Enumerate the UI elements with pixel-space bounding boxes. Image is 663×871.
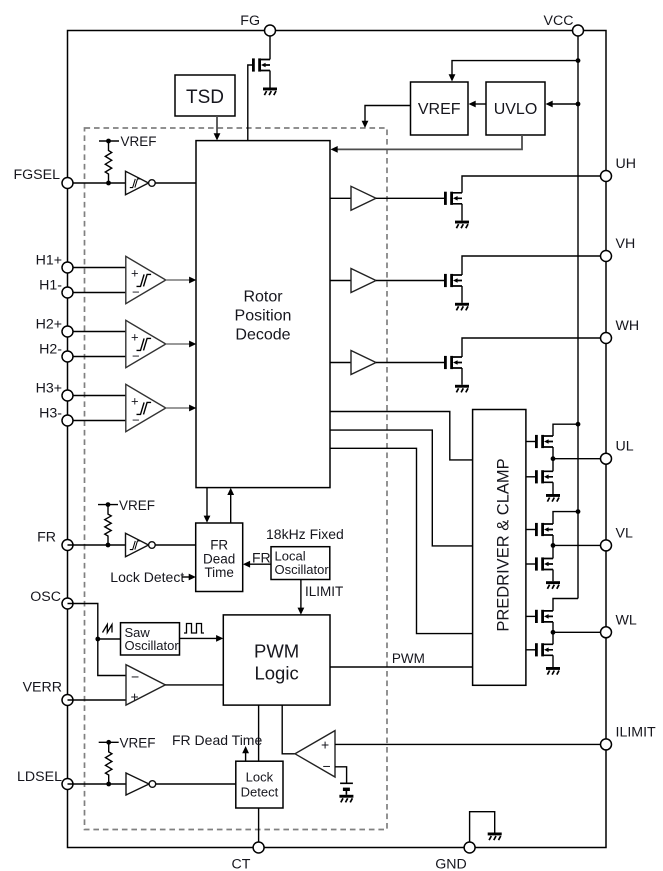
resistor R2 (FR pull-up to VREF) <box>98 504 118 506</box>
wire Q2 drain to terminal UH <box>462 176 601 193</box>
schmitt inverter U2 (FGSEL) <box>126 171 149 195</box>
block PREDRIVER & CLAMP <box>473 410 526 686</box>
arrow hall comparator 1 output to decoder <box>166 279 190 281</box>
resistor R1 (FGSEL pull-up to VREF) <box>99 140 119 142</box>
wire decoder output V to predriver <box>330 430 473 546</box>
wire H1- input <box>68 292 126 294</box>
svg-text:PWM: PWM <box>392 651 425 666</box>
wire Q7 drain to VCC rail <box>553 512 578 524</box>
wire Q7 source to node VL <box>552 535 554 545</box>
wire ILIMIT terminal to comparator + <box>335 743 601 745</box>
outer frame wire (chip boundary) <box>68 31 607 848</box>
wire Q5 drain to VCC rail <box>553 424 578 436</box>
svg-text:Lock Detect: Lock Detect <box>110 569 184 585</box>
capacitor C1 <box>340 782 353 784</box>
svg-text:Time: Time <box>204 565 234 580</box>
terminal CT <box>253 842 264 853</box>
wire error amp output to PWM logic <box>165 684 223 686</box>
error amp U9 <box>126 665 165 705</box>
ground under Q1 <box>263 88 277 96</box>
svg-text:VCC: VCC <box>544 13 574 29</box>
buffer amp VH driver <box>351 269 376 293</box>
svg-text:Lock: Lock <box>246 770 274 785</box>
junction R3 bottom <box>106 782 111 787</box>
comparator U10 (current limit) <box>295 731 335 777</box>
svg-text:+: + <box>131 265 139 280</box>
block TSD <box>175 75 235 116</box>
wire lock detect to CT terminal <box>258 808 260 848</box>
ground under Q4 <box>455 385 469 393</box>
wire comparator - to capacitor <box>335 767 347 784</box>
wire node WL to terminal <box>553 631 601 633</box>
wire FG drain <box>269 31 271 60</box>
block UVLO <box>486 82 545 135</box>
buffer amp UH driver <box>351 186 376 210</box>
terminal WH <box>601 333 612 344</box>
block FR Dead Time <box>196 523 243 592</box>
transistor Q8 (VL low) <box>535 557 553 570</box>
wire U11 output to lock detect <box>156 783 236 785</box>
terminal H3+ <box>62 390 73 401</box>
terminal VERR <box>62 695 73 706</box>
svg-text:UL: UL <box>616 439 634 455</box>
arrow TSD to Rotor Position Decode <box>216 116 218 137</box>
wire U2 output to decoder <box>155 182 196 184</box>
svg-text:WL: WL <box>616 612 637 628</box>
wire predriver to Q9 gate <box>526 615 535 617</box>
terminal VCC <box>573 25 584 36</box>
wire predriver to Q7 gate <box>526 529 535 531</box>
junction node UL <box>551 456 556 461</box>
comparator U4 (hall H2) <box>126 320 166 367</box>
wire OSC to saw oscillator <box>98 638 121 640</box>
svg-text:OSC: OSC <box>30 589 61 605</box>
wire buffer to Q4 gate <box>376 362 444 364</box>
svg-text:ILIMIT: ILIMIT <box>616 724 657 740</box>
wire Q10 source to ground <box>552 655 554 667</box>
wire Q8 source to ground <box>552 570 554 582</box>
wire Q3 source to ground <box>461 286 463 303</box>
buffer U11 (LDSEL) <box>126 773 149 795</box>
ground under Q2 <box>455 221 469 229</box>
junction R1 bottom <box>106 181 111 186</box>
terminal H3- <box>62 415 73 426</box>
svg-text:VERR: VERR <box>23 680 62 696</box>
wire Q4 source to ground <box>461 368 463 385</box>
ground symbol near GND pin <box>488 833 502 841</box>
wire Q8 drain to node VL <box>552 545 554 558</box>
terminal WL <box>601 627 612 638</box>
junction node WL <box>551 630 556 635</box>
arrow decoder to FR Dead Time <box>206 488 208 519</box>
terminal GND <box>464 842 475 853</box>
wire predriver to Q6 gate <box>526 476 535 478</box>
terminal H1- <box>62 287 73 298</box>
svg-text:ILIMIT: ILIMIT <box>305 584 343 599</box>
svg-text:VREF: VREF <box>120 736 156 751</box>
arrow lock detect FR dead time output <box>245 750 247 761</box>
svg-text:Oscillator: Oscillator <box>125 638 180 653</box>
arrow saw oscillator to PWM logic <box>180 637 220 639</box>
wire decoder to buffer WH <box>330 362 351 364</box>
arrow UVLO to VREF <box>473 103 487 105</box>
terminal VH <box>601 251 612 262</box>
terminal UL <box>601 453 612 464</box>
transistor Q6 (UL low) <box>535 470 553 483</box>
wire FGSEL input <box>68 182 126 184</box>
junction VCC rail / Q7 drain <box>576 509 581 514</box>
square waveform icon <box>184 624 204 634</box>
wire predriver to Q5 gate <box>526 441 535 443</box>
svg-text:TSD: TSD <box>186 87 224 108</box>
schmitt inverter U6 (FR) <box>126 533 149 557</box>
wire buffer to Q2 gate <box>376 197 444 199</box>
svg-text:Detect: Detect <box>241 784 279 799</box>
svg-text:Oscillator: Oscillator <box>275 562 330 577</box>
svg-text:−: − <box>131 669 139 685</box>
junction VCC rail / Q5 drain <box>576 422 581 427</box>
svg-text:18kHz Fixed: 18kHz Fixed <box>266 526 344 542</box>
svg-text:FR: FR <box>37 530 56 546</box>
junction R3 top <box>106 740 111 745</box>
svg-text:LDSEL: LDSEL <box>17 769 62 785</box>
comparator U5 (hall H3) <box>126 384 166 431</box>
svg-text:GND: GND <box>435 857 467 871</box>
block Local Oscillator <box>271 547 330 580</box>
wire predriver to Q10 gate <box>526 649 535 651</box>
ground under Q8 <box>546 581 560 589</box>
svg-text:Decode: Decode <box>235 327 290 344</box>
wire VCC to VREF feed <box>452 61 578 78</box>
wire LDSEL input <box>68 783 127 785</box>
comparator U3 (hall H1) <box>126 256 166 303</box>
svg-text:FR: FR <box>210 538 228 553</box>
wire Q10 drain to node WL <box>552 632 554 644</box>
ground under Q6 <box>546 494 560 502</box>
wire decoder to buffer UH <box>330 197 351 199</box>
transistor Q2 (UH driver) <box>444 192 462 205</box>
wire FR input <box>68 544 126 546</box>
svg-text:FR: FR <box>252 550 271 566</box>
junction R2 bottom <box>106 543 111 548</box>
svg-text:H1-: H1- <box>39 278 62 294</box>
wire decoder output U to predriver <box>330 412 473 460</box>
wire PWM logic to predriver (PWM net) <box>330 666 473 668</box>
svg-text:VH: VH <box>616 236 636 252</box>
arrow VREF to internal circuits <box>365 106 411 125</box>
wire Q9 drain to VCC rail <box>553 599 578 611</box>
junction OSC branch <box>95 637 100 642</box>
arrow local oscillator to FR Dead Time <box>247 563 271 565</box>
junction R1 top <box>106 139 111 144</box>
svg-text:CT: CT <box>232 857 251 871</box>
svg-text:+: + <box>131 689 139 705</box>
svg-text:WH: WH <box>616 318 640 334</box>
svg-text:+: + <box>321 737 329 753</box>
terminal UH <box>601 171 612 182</box>
junction R2 top <box>106 502 111 507</box>
svg-text:H3+: H3+ <box>36 381 62 397</box>
wire Q3 drain to terminal VH <box>462 256 601 275</box>
terminal H2+ <box>62 326 73 337</box>
transistor Q10 (WL low) <box>535 643 553 656</box>
transistor Q3 (VH driver) <box>444 274 462 287</box>
svg-text:VL: VL <box>616 525 633 541</box>
transistor Q4 (WH driver) <box>444 356 462 369</box>
wire node UL to terminal <box>553 458 601 460</box>
arrow UVLO to Rotor Position Decode <box>335 135 523 149</box>
transistor Q9 (WL high) <box>535 610 553 623</box>
wire decoder to buffer VH <box>330 280 351 282</box>
wire PWM logic to lock detect <box>258 705 260 761</box>
svg-text:PREDRIVER & CLAMP: PREDRIVER & CLAMP <box>495 458 513 631</box>
buffer amp WH driver <box>351 351 376 375</box>
ground under C1 <box>339 795 353 803</box>
svg-text:H3-: H3- <box>39 406 62 422</box>
svg-text:UVLO: UVLO <box>494 101 538 118</box>
wire Q5 source to node UL <box>552 447 554 459</box>
wire H1+ input <box>68 267 126 269</box>
wire decoder output W to predriver <box>330 448 473 633</box>
wire H2- input <box>68 356 126 358</box>
svg-text:−: − <box>323 758 331 774</box>
wire Q1 gate from Rotor Position Decode <box>248 65 252 141</box>
transistor Q5 (UL high) <box>535 435 553 448</box>
block VREF regulator <box>411 82 469 135</box>
svg-text:VREF: VREF <box>119 498 155 513</box>
terminal H1+ <box>62 262 73 273</box>
wire Q9 source to node WL <box>552 622 554 632</box>
block Lock Detect <box>236 761 283 808</box>
block PWM Logic <box>223 615 330 705</box>
junction VCC/VREF feed <box>576 58 581 63</box>
wire Q6 drain to node UL <box>552 459 554 472</box>
svg-text:VREF: VREF <box>121 134 157 149</box>
wire VCC to UVLO feed <box>550 103 579 105</box>
svg-text:Position: Position <box>235 308 292 325</box>
svg-text:Rotor: Rotor <box>243 289 283 306</box>
terminal H2- <box>62 351 73 362</box>
terminal VL <box>601 540 612 551</box>
svg-text:FR Dead Time: FR Dead Time <box>172 732 262 748</box>
wire Q6 source to ground <box>552 482 554 494</box>
block Rotor Position Decode <box>196 141 330 488</box>
svg-text:H2-: H2- <box>39 342 62 358</box>
ground under Q10 <box>546 667 560 675</box>
arrow local oscillator ILIMIT to PWM logic <box>300 580 302 611</box>
svg-text:+: + <box>131 393 139 408</box>
wire VCC rail <box>577 31 579 599</box>
dashed internal boundary box <box>85 128 388 830</box>
wire H3- input <box>68 420 126 422</box>
arrow lock detect into FR Dead Time <box>182 576 192 578</box>
svg-text:PWM: PWM <box>254 641 299 662</box>
wire node VL to terminal <box>553 544 601 546</box>
wire buffer to Q3 gate <box>376 280 444 282</box>
wire predriver to Q8 gate <box>526 563 535 565</box>
svg-text:+: + <box>131 329 139 344</box>
wire Q2 source to ground <box>461 204 463 221</box>
terminal FG <box>265 25 276 36</box>
ground under Q3 <box>455 303 469 311</box>
block Saw Oscillator <box>121 623 180 655</box>
transistor Q1 (FG open-drain) <box>252 58 270 71</box>
svg-text:VREF: VREF <box>418 101 461 118</box>
junction node VL <box>551 543 556 548</box>
svg-text:H2+: H2+ <box>36 317 62 333</box>
wire Q4 drain to terminal WH <box>462 338 601 357</box>
resistor R3 (LDSEL pull-up to VREF) <box>99 741 119 743</box>
terminal FR <box>62 540 73 551</box>
svg-text:FG: FG <box>240 13 260 29</box>
terminal LDSEL <box>62 779 73 790</box>
wire PWM logic to current comparator output <box>282 705 295 754</box>
terminal ILIMIT <box>601 739 612 750</box>
wire OSC input <box>68 604 127 676</box>
svg-text:H1+: H1+ <box>36 253 62 269</box>
wire H2+ input <box>68 331 126 333</box>
arrow hall comparator 3 output to decoder <box>166 407 190 409</box>
wire Q1 source to ground <box>269 71 271 88</box>
transistor Q7 (VL high) <box>535 523 553 536</box>
terminal OSC <box>62 598 73 609</box>
svg-text:UH: UH <box>616 156 637 172</box>
terminal FGSEL <box>62 178 73 189</box>
wire VERR input <box>68 699 127 701</box>
arrow FR Dead Time to decoder <box>230 492 232 523</box>
svg-text:Logic: Logic <box>254 663 298 684</box>
junction VCC/UVLO feed <box>576 102 581 107</box>
wire H3+ input <box>68 395 126 397</box>
svg-text:FGSEL: FGSEL <box>13 167 60 183</box>
arrow hall comparator 2 output to decoder <box>166 343 190 345</box>
sawtooth waveform icon <box>103 625 113 633</box>
wire GND hook <box>470 812 495 848</box>
wire U6 output to FR Dead Time <box>155 544 196 546</box>
